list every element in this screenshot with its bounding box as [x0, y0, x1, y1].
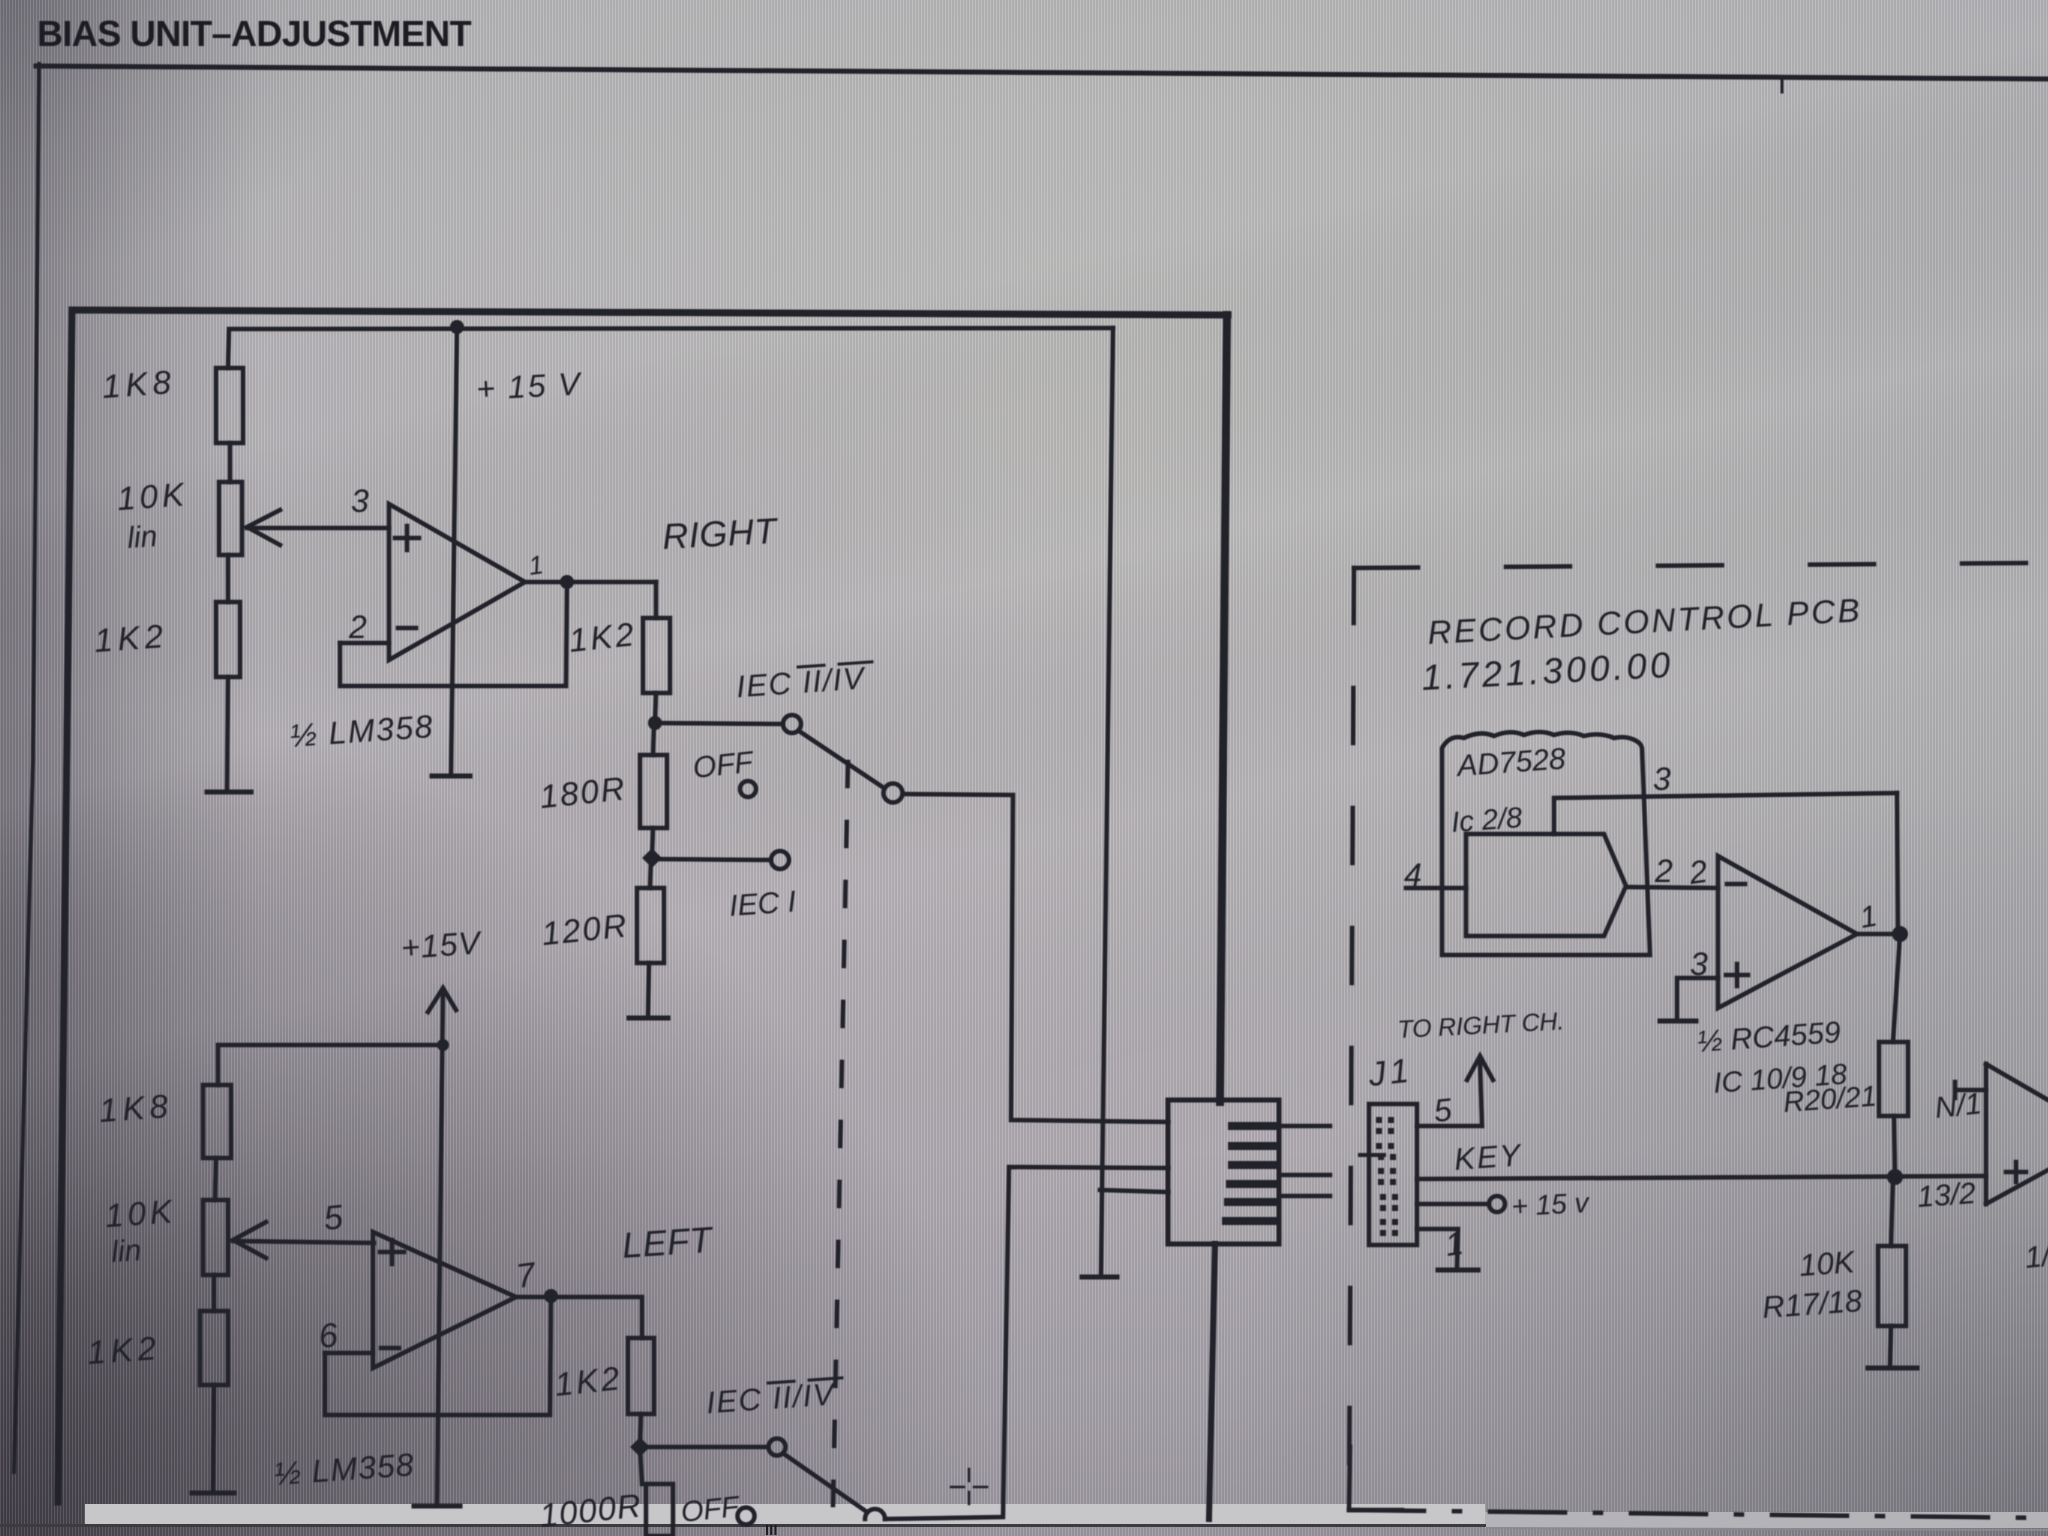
- wire feedback loop (right): [340, 582, 567, 686]
- wire DAC pin 3 up: [1554, 793, 1897, 834]
- dashed border: RECORD CONTROL PCB left: [1349, 568, 1354, 1510]
- wire output down to 1K2: [654, 582, 659, 618]
- svg-text:RIGHT: RIGHT: [661, 510, 780, 557]
- svg-text:3: 3: [1690, 946, 1708, 982]
- wire 1K2 to node: [655, 693, 656, 723]
- switch contact OFF (left): [738, 1508, 755, 1525]
- switch contact IEC I (right): [771, 851, 789, 869]
- wire KEY node to 10K: [1891, 1177, 1893, 1246]
- wire 1K8 to pot: [228, 443, 233, 482]
- svg-text:2: 2: [1654, 853, 1673, 889]
- svg-text:KEY: KEY: [1453, 1137, 1524, 1177]
- svg-text:R20/21: R20/21: [1782, 1081, 1878, 1119]
- wire node to 1000R (left): [640, 1447, 642, 1484]
- ground: RC4559 + input: [1660, 1019, 1696, 1024]
- svg-text:3: 3: [1653, 761, 1671, 797]
- wire 1K2 to node (left): [640, 1414, 641, 1447]
- svg-text:10K: 10K: [116, 475, 189, 517]
- op-amp N/1 (right edge, partial): [1984, 1064, 1989, 1204]
- wire: branch from mid vertical into connector box: [1100, 1190, 1168, 1192]
- tick on top border: [1781, 79, 1784, 92]
- svg-text:LEFT: LEFT: [621, 1219, 716, 1266]
- wire node to IEC II/IV contact: [655, 723, 783, 724]
- ground: R17/18: [1868, 1366, 1917, 1371]
- wire output (left): [516, 1297, 642, 1338]
- wire + input to ground (RC4559): [1677, 978, 1718, 1019]
- label IEC II/IV (left): [705, 1376, 844, 1420]
- svg-text:13/2: 13/2: [1916, 1177, 1977, 1214]
- switch contact IEC II/IV (right): [783, 715, 801, 733]
- wire op-amp output: [1857, 932, 1900, 937]
- resistor R20/21: [1879, 1042, 1908, 1116]
- IC AD7528 box with wavy top: [1442, 732, 1650, 955]
- wire left chain top rail: [218, 1045, 443, 1085]
- node: switch node (left): [630, 1437, 650, 1457]
- connector box comb teeth: [1226, 1126, 1277, 1221]
- svg-text:2: 2: [348, 609, 367, 645]
- op-amp - sign (left): [381, 1346, 399, 1351]
- wire: +15V rail (second top rail): [228, 328, 1113, 368]
- svg-text:N/1: N/1: [1933, 1087, 1983, 1125]
- wire common to mid vertical: [903, 794, 1168, 1122]
- wire feedback up and left (RC4559): [1897, 793, 1898, 934]
- op-amp U1b LM358 (left) triangle: [373, 1232, 516, 1368]
- wire pin2 input: [340, 641, 389, 646]
- wire: mid vertical from rail down to ground: [1101, 328, 1113, 1274]
- svg-text:OFF: OFF: [679, 1491, 742, 1529]
- ground: 120R: [629, 1016, 668, 1021]
- op-amp + sign: [395, 526, 419, 550]
- resistor 180R (right): [640, 755, 667, 828]
- terminal circle +15V: [1489, 1196, 1505, 1212]
- potentiometer 10K lin (right): [219, 482, 242, 555]
- switch arm (left): [784, 1454, 867, 1512]
- svg-text:1K8: 1K8: [101, 363, 177, 405]
- wire pot wiper to op-amp pin 3: [247, 526, 389, 531]
- ground: left chain: [192, 1491, 234, 1496]
- resistor 1K8 (left): [203, 1085, 231, 1158]
- node: RC4559 output junction: [1892, 926, 1908, 942]
- svg-text:+ 15 V: + 15 V: [475, 365, 583, 407]
- node: KEY junction: [1887, 1169, 1903, 1185]
- ground: right channel +15V line ground: [432, 774, 470, 779]
- ground: J1 pin1: [1438, 1268, 1478, 1273]
- wire 1K2 to ground: [227, 677, 228, 790]
- resistor 120R (right): [637, 888, 664, 963]
- wire node to 120R: [650, 858, 651, 888]
- switch common tip arc (left): [865, 1509, 885, 1519]
- ground: right chain: [207, 790, 251, 795]
- wire pot to 1K2 (left): [212, 1275, 217, 1311]
- op-amp N/1 - input stub with T bar: [1955, 1082, 1986, 1098]
- op-amp - sign: [398, 626, 416, 631]
- svg-text:+15V: +15V: [400, 924, 484, 966]
- svg-text:R17/18: R17/18: [1761, 1283, 1864, 1325]
- pot wiper arrow (left): [233, 1222, 266, 1258]
- wire 1K8 to pot (left): [215, 1158, 216, 1200]
- svg-text:1K2: 1K2: [86, 1329, 162, 1371]
- wire node to IEC II/IV contact (left): [640, 1445, 768, 1450]
- DAC symbol (pentagon): [1466, 834, 1626, 936]
- svg-text:6: 6: [317, 1316, 340, 1356]
- node: output junction (right): [560, 575, 574, 589]
- potentiometer 10K lin (left): [203, 1200, 228, 1275]
- bottom screen-edge strip: [0, 1504, 2048, 1536]
- node: IEC I node (right): [642, 848, 662, 868]
- svg-text:1K8: 1K8: [98, 1087, 174, 1129]
- node: output junction (left): [544, 1289, 558, 1303]
- wire pin 4: [1406, 886, 1466, 891]
- svg-text:10K: 10K: [104, 1192, 177, 1234]
- wire 120R to ground: [648, 963, 649, 1016]
- wire op-amp output: [525, 580, 656, 585]
- svg-text:1K2: 1K2: [553, 1359, 624, 1403]
- wire pot wiper to op-amp pin 5: [233, 1241, 374, 1243]
- svg-text:10K: 10K: [1798, 1244, 1857, 1283]
- node: left rail junction: [437, 1039, 449, 1051]
- arrow head +15V (left): [428, 988, 456, 1012]
- resistor 1000R (left, cut at bottom): [646, 1484, 673, 1536]
- switch common contact (right): [884, 784, 903, 803]
- svg-text:+ 15 v: + 15 v: [1511, 1187, 1592, 1222]
- svg-text:IEC I: IEC I: [728, 885, 797, 923]
- op-amp + sign (left): [380, 1240, 404, 1264]
- wire J1 +15V pin: [1417, 1202, 1489, 1207]
- ground: left +15V line: [414, 1504, 460, 1509]
- dashed border: RECORD CONTROL PCB bottom-left corner piece: [1349, 1447, 1402, 1510]
- switch contact IEC II/IV (left): [769, 1439, 786, 1456]
- registration crosshair: [951, 1469, 987, 1504]
- wire 1K2 to ground (left): [213, 1385, 214, 1491]
- op-amp N/1 + sign: [2006, 1162, 2026, 1182]
- resistor 1K8 (right): [216, 368, 243, 443]
- svg-text:3: 3: [351, 483, 369, 519]
- switch arm (right): [799, 731, 884, 788]
- connector box (center plug symbol): [1168, 1100, 1279, 1244]
- label IEC II/IV (right): [735, 660, 874, 704]
- wire pin6 input (left): [325, 1351, 373, 1356]
- resistor 1K2 (right output): [643, 618, 670, 693]
- svg-text:III: III: [765, 1522, 778, 1536]
- dashed border: RECORD CONTROL PCB bottom: [1349, 1510, 2048, 1518]
- wire R20/21 to KEY node: [1894, 1116, 1895, 1176]
- page border top: [36, 66, 2048, 79]
- node: switch node top (right): [648, 716, 662, 730]
- node: +15V junction on rail: [450, 320, 464, 334]
- op-amp RC4559 triangle: [1718, 856, 1857, 1008]
- connector box right stubs: [1279, 1124, 1330, 1129]
- wire: thick bus right vertical upper part: [1220, 315, 1227, 1102]
- wire node to 180R: [653, 723, 654, 755]
- svg-text:1/: 1/: [2023, 1239, 2048, 1275]
- wire KEY long horizontal: [1417, 1176, 1986, 1179]
- J1 KEY tick: [1360, 1153, 1384, 1157]
- switch contact OFF (right): [740, 781, 756, 797]
- ground: mid rail ground: [1082, 1275, 1117, 1280]
- J1 pin dots: [1376, 1117, 1398, 1236]
- wire output to R20/21: [1893, 934, 1900, 1042]
- wire node to IEC I contact: [652, 859, 771, 860]
- svg-text:BIAS UNIT–ADJUSTMENT: BIAS UNIT–ADJUSTMENT: [37, 13, 472, 54]
- pot wiper arrow: [247, 510, 280, 545]
- wire J1 pin 5 with arrow up: [1417, 1062, 1482, 1126]
- svg-text:1K2: 1K2: [93, 617, 169, 659]
- wire: thick bus right vertical lower part (below connector box): [1209, 1244, 1215, 1519]
- resistor 1K2 (left output): [628, 1338, 654, 1414]
- svg-text:lin: lin: [110, 1234, 142, 1269]
- op-amp + sign (RC4559): [1726, 964, 1748, 986]
- dashed border: RECORD CONTROL PCB top: [1354, 563, 2030, 568]
- wire 180R to node: [652, 828, 653, 858]
- wire pot to 1K2: [226, 555, 231, 602]
- resistor 1K2 (right chain): [216, 602, 240, 677]
- svg-text:5: 5: [322, 1198, 345, 1238]
- op-amp - sign (RC4559): [1727, 882, 1745, 887]
- wire feedback loop (left): [325, 1297, 551, 1415]
- dashed separator line (center): [833, 762, 848, 1505]
- wire DAC output to op-amp: [1626, 887, 1718, 888]
- wire J1 pin 1 to ground: [1417, 1229, 1458, 1268]
- page border left: [14, 64, 39, 1472]
- wire +15V vertical with arrow (left): [437, 990, 443, 1503]
- resistor 10K R17/18: [1878, 1246, 1906, 1326]
- wire 10K to ground: [1890, 1326, 1891, 1366]
- J1 connector outline: [1369, 1104, 1417, 1245]
- svg-text:lin: lin: [126, 520, 158, 555]
- svg-text:J1: J1: [1366, 1052, 1415, 1094]
- wire: thick bus loop (left vertical, top horizontal, right vertical): [58, 310, 1228, 1502]
- wire: +15V vertical (right channel): [451, 327, 457, 775]
- wire common to connector box (left): [885, 1167, 1168, 1519]
- svg-text:1K2: 1K2: [567, 615, 638, 659]
- arrow head pin 5: [1467, 1056, 1493, 1080]
- resistor 1K2 (left chain): [200, 1311, 228, 1385]
- op-amp U1a LM358 (right) triangle: [389, 504, 525, 660]
